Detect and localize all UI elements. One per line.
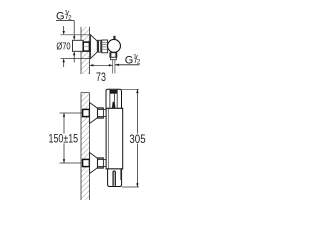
svg-text:G: G <box>125 54 134 66</box>
knob indicator stub <box>113 36 115 40</box>
union nut (top view) <box>98 40 102 52</box>
outlet nipple <box>110 57 116 59</box>
upper union nut (front) <box>98 108 104 118</box>
top cap / temperature handle (front) <box>106 89 122 108</box>
label G1/2 (top left) <box>56 9 74 22</box>
valve body (top view) <box>102 40 108 53</box>
lower escutcheon cone (front) <box>90 153 98 174</box>
wall (top view) hatched section <box>81 27 90 74</box>
dimension 305 (overall height) <box>122 89 146 187</box>
svg-text:305: 305 <box>129 132 146 146</box>
lower inlet pipe <box>103 160 106 167</box>
mixer main body (front) <box>106 108 123 169</box>
outlet stem extension lines <box>113 60 115 74</box>
upper inlet pipe <box>103 110 106 117</box>
upper escutcheon cone (front) <box>90 103 98 124</box>
svg-text:Ø70: Ø70 <box>56 41 70 53</box>
lower union socket square <box>83 159 90 166</box>
lower union nut (front) <box>98 158 104 168</box>
svg-text:150±15: 150±15 <box>49 134 79 146</box>
escutcheon cone (top view) <box>91 35 98 59</box>
dimension 73 (wall to outlet) <box>90 64 113 84</box>
bottom cap / flow handle (front) <box>108 169 122 187</box>
wall (front view) hatched section <box>81 93 90 201</box>
label G1/2 (outlet, right) <box>115 54 141 67</box>
dimension 150±15 (inlet spacing) <box>49 113 83 163</box>
svg-text:73: 73 <box>96 70 106 84</box>
svg-text:2: 2 <box>137 58 141 65</box>
handle knob circle (top view) <box>108 39 121 52</box>
supply pipe stub (G1/2) in wall <box>73 40 84 51</box>
leader / thread dimension for top G1/2 <box>73 21 75 63</box>
dimension Ø70 (escutcheon diameter) <box>56 26 90 67</box>
upper union socket square <box>83 109 90 116</box>
shower outlet (top view) <box>110 53 117 58</box>
union socket square (top view) <box>83 42 89 51</box>
